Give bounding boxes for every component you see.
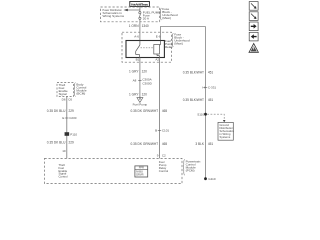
toolbar icon: previous (left arrow) <box>249 32 258 41</box>
svg-text:(Maxi): (Maxi) <box>162 16 171 20</box>
toolbar icon: zoom out (diagonal arrow) <box>249 2 258 11</box>
connector C-331: pin H <box>202 85 216 89</box>
svg-text:229: 229 <box>69 109 75 113</box>
PCM pin 10 function label: Fuel Enable <box>59 163 68 178</box>
svg-text:DRVR: DRVR <box>136 173 143 177</box>
svg-text:451: 451 <box>208 70 214 74</box>
svg-text:C230: C230 <box>69 116 77 120</box>
svg-text:Hot At All Times: Hot At All Times <box>131 2 148 6</box>
PCM pin 9 function label: Fuel Pump Relay Control <box>159 160 169 173</box>
wire label: 1 GRY 120 (upper) <box>129 69 147 73</box>
svg-text:1 GRY: 1 GRY <box>129 92 139 96</box>
svg-text:E-6: E-6 <box>156 35 161 39</box>
svg-text:451: 451 <box>208 142 214 146</box>
svg-text:0.35 BLK/WHT: 0.35 BLK/WHT <box>183 70 204 74</box>
svg-text:Systems: Systems <box>220 135 231 139</box>
wire label: 0.35 BLK/WHT 451 (mid right) <box>183 98 214 102</box>
connector C300: pin A8 <box>133 78 153 86</box>
reference arrow: Power Distribution Schematics in Wiring Systems <box>103 8 140 18</box>
svg-text:A-6: A-6 <box>134 35 139 39</box>
svg-text:(BCM): (BCM) <box>76 91 85 95</box>
dashed box: underhood fuse block (relay section) <box>122 32 172 62</box>
svg-text:20 A: 20 A <box>143 17 150 21</box>
svg-text:H: H <box>202 85 204 89</box>
svg-text:Signal: Signal <box>59 92 67 96</box>
wire: relay coil feed up and across to right (ground branch) <box>161 27 206 41</box>
splice S110 <box>197 113 207 117</box>
svg-text:Control: Control <box>59 174 68 178</box>
wire label: 1 GRY 120 (lower) <box>129 92 147 96</box>
svg-text:G110: G110 <box>208 177 215 181</box>
svg-text:P110: P110 <box>70 132 77 136</box>
relay switch contact <box>136 41 140 58</box>
wire: relay switch output down to fuel pump arrow <box>139 58 141 98</box>
svg-text:120: 120 <box>142 92 148 96</box>
svg-text:E: E <box>62 116 64 120</box>
svg-text:451: 451 <box>208 98 214 102</box>
wire: battery feed into fuse <box>139 6 141 12</box>
svg-text:Wiring Systems: Wiring Systems <box>103 14 125 18</box>
grommet P110 <box>65 132 78 136</box>
reference dashed arrow to ground distribution <box>207 114 225 122</box>
svg-text:Relay: Relay <box>165 45 173 49</box>
svg-text:Fuel Pump: Fuel Pump <box>133 102 148 106</box>
svg-text:0.35 DK BLU: 0.35 DK BLU <box>47 141 66 145</box>
wire: BCM fuel enable down to PCM <box>66 97 68 159</box>
toolbar icon: zoom in (diagonal arrow) <box>249 12 258 21</box>
svg-text:C2: C2 <box>162 153 166 157</box>
module: Body Control Module (dashed box) <box>57 83 74 97</box>
wire label: 0.35 DK BLU 229 (lower) <box>47 141 74 145</box>
svg-text:0.35 DK BLU: 0.35 DK BLU <box>47 109 66 113</box>
svg-text:D6: D6 <box>62 98 66 102</box>
svg-text:465: 465 <box>162 109 168 113</box>
svg-text:Control: Control <box>159 169 169 173</box>
svg-text:C101: C101 <box>162 129 170 133</box>
svg-text:C-331: C-331 <box>208 85 217 89</box>
label: Fuel Pump Relay (inside dashed box) <box>165 39 173 49</box>
label: Body Control Module (BCM) with brace <box>74 82 87 96</box>
svg-text:0.35 DK GRN/WHT: 0.35 DK GRN/WHT <box>130 109 158 113</box>
connector label: D6 C6 <box>62 98 73 102</box>
svg-text:1340: 1340 <box>142 24 149 28</box>
reference box: Ground Distribution Schematics in Wiring Systems <box>218 122 235 140</box>
svg-text:(PCM): (PCM) <box>186 168 195 172</box>
svg-text:1 ORN: 1 ORN <box>129 24 139 28</box>
module: Powertrain Control Module (dashed box) <box>45 158 183 183</box>
toolbar icon: next (right arrow) <box>249 22 258 31</box>
svg-text:A8: A8 <box>133 79 137 83</box>
svg-text:465: 465 <box>162 142 168 146</box>
power label "Hot At All Times" <box>130 2 150 7</box>
relay mechanical link (dashed) <box>141 47 154 49</box>
wire label: 0.35 DK GRN/WHT 465 (upper) <box>130 109 167 113</box>
svg-text:S110: S110 <box>197 113 204 117</box>
svg-text:0.35 DK GRN/WHT: 0.35 DK GRN/WHT <box>130 142 158 146</box>
wire: right vertical ground run to G110 <box>205 27 207 179</box>
svg-text:C300D: C300D <box>142 81 152 85</box>
relay coil <box>154 41 161 58</box>
svg-text:120: 120 <box>142 69 148 73</box>
label: Fuse Block - Underhood (relay, with brace) <box>172 33 190 47</box>
label: Fuse Block - Underhood (top, with brace) <box>160 7 178 20</box>
connector C101: pin B <box>155 129 169 133</box>
label: Powertrain Control Module (PCM) with brace <box>183 159 201 175</box>
PCM internal driver box <box>135 166 148 177</box>
svg-text:FPR: FPR <box>139 166 144 170</box>
wire label: 0.35 DK GRN/WHT 465 (lower) <box>130 142 167 146</box>
wire: fuse output down to relay <box>139 19 141 40</box>
svg-text:1 GRY: 1 GRY <box>129 69 139 73</box>
wire label: 0.35 DK BLU 229 (upper) <box>47 109 74 113</box>
svg-text:3 BLK: 3 BLK <box>195 142 205 146</box>
svg-text:(Maxi): (Maxi) <box>174 42 183 46</box>
svg-text:0.35 BLK/WHT: 0.35 BLK/WHT <box>183 98 204 102</box>
wire: relay coil output down to PCM pin 9 <box>159 58 161 159</box>
wire label: 1 ORN 1340 <box>129 24 149 28</box>
pin label 9 C2 (PCM) <box>157 153 166 157</box>
svg-text:A2: A2 <box>155 58 159 62</box>
svg-text:C6: C6 <box>68 98 72 102</box>
dashed box: underhood fuse block (fuse section) <box>101 7 160 22</box>
svg-text:229: 229 <box>69 141 75 145</box>
wire label: 0.35 BLK/WHT 451 (upper right) <box>183 70 214 74</box>
fuse FUEL PUMP 20A <box>139 11 161 21</box>
svg-text:B1: B1 <box>136 58 140 62</box>
ground G110 <box>204 177 216 181</box>
off-page arrow: to Fuel Pump <box>133 98 148 107</box>
connector C230: pin E <box>62 116 76 120</box>
svg-text:B: B <box>155 129 157 133</box>
toolbar icon: warning triangle <box>249 44 258 53</box>
svg-text:10: 10 <box>62 149 66 153</box>
wire label: 3 BLK 451 <box>195 142 213 146</box>
relay K: Fuel Pump Relay box <box>126 41 164 58</box>
